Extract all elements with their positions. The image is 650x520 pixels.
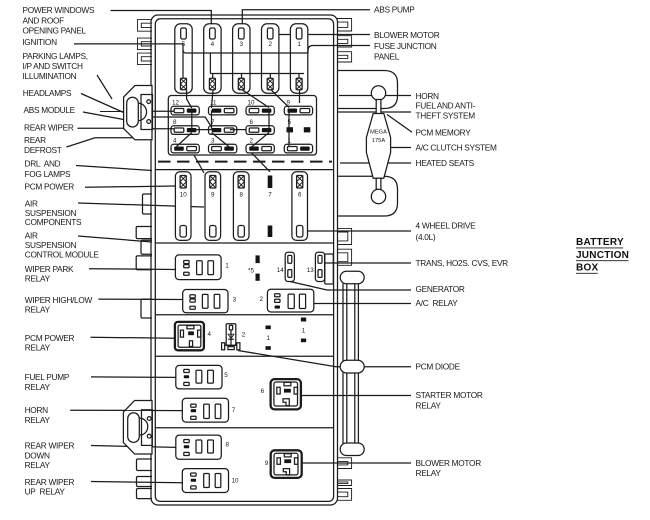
- right connector rect beside fuse 13: [325, 254, 334, 284]
- right edge tab RT4: [337, 228, 352, 244]
- fuse 14: [285, 252, 294, 281]
- wire: parking lamps label to connector: [97, 75, 112, 99]
- svg-text:BATTERY: BATTERY: [576, 237, 624, 248]
- svg-text:REAR WIPER: REAR WIPER: [25, 441, 75, 451]
- right edge tab RT6: [337, 458, 352, 469]
- svg-text:10: 10: [180, 192, 188, 199]
- wire: rear wiper up relay label to relay 10: [91, 482, 182, 483]
- svg-text:FUEL PUMP: FUEL PUMP: [25, 372, 70, 382]
- svg-text:PARKING LAMPS,: PARKING LAMPS,: [23, 51, 88, 61]
- wire: abs module leader over connector: [100, 111, 124, 113]
- wire: mini fuse 11 to 7: [211, 111, 213, 130]
- cartridge fuse 10: [175, 172, 191, 241]
- right tab for MEGA fuse bottom: [337, 176, 398, 216]
- svg-text:2: 2: [268, 41, 272, 48]
- mini fuse 3: [209, 144, 237, 153]
- svg-text:5: 5: [224, 372, 228, 379]
- mega fuse top circle terminal: [371, 86, 385, 100]
- wire: abs pump label to fuse 3: [242, 10, 370, 28]
- svg-text:RELAY: RELAY: [25, 274, 51, 284]
- svg-text:RELAY: RELAY: [25, 304, 51, 314]
- right edge tab RT5: [337, 249, 352, 265]
- svg-text:FUEL AND ANTI-: FUEL AND ANTI-: [416, 101, 476, 111]
- svg-text:4: 4: [211, 41, 215, 48]
- svg-text:10: 10: [248, 99, 256, 106]
- wire: fuse 3 x-box to mini fuse 10: [242, 90, 269, 108]
- wire: rear defrost label to connector: [67, 138, 135, 147]
- svg-text:WIPER HIGH/LOW: WIPER HIGH/LOW: [25, 295, 93, 305]
- svg-text:1: 1: [267, 335, 271, 342]
- wire: air suspension components label to fuse 9: [78, 203, 204, 207]
- wire: mini fuse 12 to 8: [191, 111, 193, 130]
- wire: box edge to mini fuse 7: [152, 117, 212, 127]
- solid line below dashed separator: [155, 169, 333, 171]
- wire: fuse 5 center drop: [175, 44, 183, 78]
- wire: horn relay leader over connector: [123, 410, 182, 412]
- wire: blower motor label to fuse 2: [273, 34, 370, 36]
- maxi fuse 1: [290, 24, 307, 93]
- svg-text:9: 9: [211, 192, 215, 199]
- relay 3 wiper high/low: [183, 290, 228, 313]
- svg-text:FUSE JUNCTION: FUSE JUNCTION: [374, 41, 437, 51]
- svg-text:2: 2: [260, 296, 264, 303]
- svg-text:DEFROST: DEFROST: [24, 145, 62, 155]
- mini fuse 7: [209, 126, 237, 135]
- svg-text:4 WHEEL DRIVE: 4 WHEEL DRIVE: [416, 221, 477, 231]
- svg-text:REAR: REAR: [24, 135, 46, 145]
- divider line below cartridge-fuse area: [155, 242, 333, 244]
- svg-text:14: 14: [277, 267, 285, 274]
- wire: mini fuse 2 to position 7: [252, 153, 271, 172]
- svg-text:AIR: AIR: [25, 198, 38, 208]
- left edge tab T7: [136, 256, 152, 270]
- svg-text:TRANS, HO2S. CVS, EVR: TRANS, HO2S. CVS, EVR: [416, 258, 509, 268]
- svg-text:FOG LAMPS: FOG LAMPS: [25, 169, 71, 179]
- wire: fuel and anti-theft label to box: [338, 111, 412, 113]
- left edge tab T8: [141, 299, 152, 318]
- left edge tab T10: [137, 477, 153, 487]
- right edge tab RT2: [337, 36, 352, 47]
- relay 2 a/c relay: [267, 289, 313, 312]
- mega fuse top stem: [376, 100, 381, 115]
- wire: box edge into mini fuse 8: [149, 128, 175, 130]
- divider line below relay row 1: [155, 314, 333, 316]
- mini fuse 12: [171, 106, 199, 115]
- wire: rear wiper label to connector: [78, 127, 125, 129]
- svg-text:BOX: BOX: [576, 263, 599, 274]
- svg-text:1: 1: [225, 263, 229, 270]
- wire: wiper park relay label to relay 1: [89, 268, 175, 271]
- left edge tab T4: [143, 194, 153, 214]
- wire: pcm power label to fuse 10: [85, 186, 176, 187]
- left connector upper (headlamps): [124, 86, 152, 140]
- wire: power windows label to fuse 4: [111, 11, 212, 28]
- wire: air suspension control module label to box edge: [78, 236, 152, 242]
- cartridge fuse 6: [292, 172, 308, 241]
- wire: bus drop at fuse 4: [209, 53, 211, 74]
- fuse 13: [315, 252, 324, 281]
- svg-text:*5: *5: [248, 268, 254, 275]
- wire: fuse junction panel label to fuse 1: [308, 46, 370, 54]
- svg-text:POWER WINDOWS: POWER WINDOWS: [23, 5, 95, 15]
- bolt rail shafts: [343, 284, 358, 362]
- wire: drops to x-boxes: [213, 74, 299, 79]
- svg-text:HEATED SEATS: HEATED SEATS: [416, 158, 475, 168]
- relay 8 rear wiper down: [176, 435, 222, 459]
- svg-text:RELAY: RELAY: [25, 460, 51, 470]
- mega fuse bottom circle terminal: [371, 189, 385, 203]
- svg-text:SUSPENSION: SUSPENSION: [25, 240, 77, 250]
- wire: rear wiper down relay label to relay 8: [91, 446, 176, 448]
- bolt rail cap bottom: [340, 443, 364, 456]
- mini fuse 4: [171, 144, 199, 153]
- svg-text:4: 4: [173, 137, 177, 144]
- svg-text:1: 1: [302, 328, 306, 335]
- wire: ignition label to fuse 5: [74, 43, 175, 45]
- left edge tab T5: [136, 227, 152, 239]
- svg-text:THEFT SYSTEM: THEFT SYSTEM: [416, 111, 476, 121]
- cartridge fuse 8: [233, 172, 249, 241]
- svg-text:RELAY: RELAY: [25, 342, 51, 352]
- svg-text:PANEL: PANEL: [374, 51, 400, 61]
- relay 5 fuel pump: [176, 365, 222, 389]
- svg-text:6: 6: [298, 192, 302, 199]
- wire: mini fuse 10 to 6: [268, 111, 270, 130]
- wire: fuse 5 x-box to mini fuse 12: [187, 90, 192, 108]
- svg-text:175A: 175A: [372, 138, 385, 144]
- svg-text:1: 1: [297, 41, 301, 48]
- mini fuse 10: [246, 106, 274, 115]
- wire: horn label to box: [339, 95, 411, 97]
- svg-text:IGNITION: IGNITION: [22, 37, 57, 47]
- right tab for MEGA fuse top: [337, 71, 398, 109]
- wire: heated seats label across mega fuse: [340, 162, 411, 164]
- svg-text:GENERATOR: GENERATOR: [416, 284, 465, 294]
- wire: headlamps label to connector: [81, 94, 124, 113]
- mini fuse 11: [209, 106, 237, 115]
- maxi fuse 4: [204, 24, 221, 93]
- maxi fuse 5: [175, 24, 192, 93]
- left connector lower (horn relay): [123, 401, 152, 455]
- maxi fuse 3: [233, 24, 250, 93]
- wire: fuse 2 x-box to mini fuse 9: [271, 90, 289, 108]
- mega fuse body MEGA 175A: [366, 114, 390, 179]
- svg-text:A/C CLUTCH SYSTEM: A/C CLUTCH SYSTEM: [416, 142, 497, 152]
- mini fuse 8: [171, 126, 199, 135]
- maxi fuse 2: [262, 24, 279, 93]
- svg-text:PCM POWER: PCM POWER: [25, 182, 75, 192]
- wire: 4 wheel drive label to fuse 6: [307, 230, 411, 232]
- wire: mini fuse 8 to 4: [177, 133, 192, 147]
- wire: box edge into mini fuse 12: [149, 110, 175, 112]
- wire: wiper high/low relay label to relay 3: [98, 298, 182, 300]
- left edge tab T11: [137, 489, 153, 499]
- wire: drl and fog lamps label to box edge: [76, 166, 152, 171]
- svg-text:REAR WIPER: REAR WIPER: [25, 477, 75, 487]
- svg-text:RELAY: RELAY: [416, 400, 442, 410]
- wire: a/c relay label to relay 2: [314, 303, 411, 305]
- svg-text:7: 7: [232, 407, 236, 414]
- mini fuse 9: [284, 106, 312, 115]
- mini fuse 1: [284, 144, 312, 153]
- wire: pcm diode label to diode: [238, 351, 411, 367]
- svg-text:6: 6: [250, 119, 254, 126]
- svg-text:HORN: HORN: [25, 405, 49, 415]
- terminal ticks column B: [301, 318, 306, 322]
- svg-text:8: 8: [239, 192, 243, 199]
- mini fuse grid box: [168, 96, 316, 156]
- wire: pcm power relay label to relay 4: [91, 337, 175, 338]
- mega fuse bottom stem: [376, 178, 381, 190]
- dashed separator line: [158, 161, 332, 163]
- svg-text:AND ROOF: AND ROOF: [23, 15, 65, 25]
- svg-text:ILLUMINATION: ILLUMINATION: [23, 71, 77, 81]
- wire: blower motor relay label to relay 9: [302, 462, 411, 464]
- svg-text:DRL AND: DRL AND: [25, 158, 61, 168]
- svg-text:A/C RELAY: A/C RELAY: [416, 298, 459, 308]
- relay 4 pcm power: [175, 322, 204, 350]
- svg-text:10: 10: [232, 478, 240, 485]
- svg-text:8: 8: [173, 119, 177, 126]
- mini fuse 2: [246, 144, 274, 153]
- svg-text:ABS PUMP: ABS PUMP: [374, 4, 415, 14]
- left edge tab T9: [137, 459, 153, 471]
- svg-text:I/P AND SWITCH: I/P AND SWITCH: [23, 61, 83, 71]
- terminal ticks column A: [266, 326, 271, 330]
- svg-text:OPENING PANEL: OPENING PANEL: [23, 25, 87, 35]
- wire: a/c clutch system label to mega fuse: [391, 147, 412, 149]
- svg-text:PCM MEMORY: PCM MEMORY: [416, 128, 472, 138]
- svg-text:PCM POWER: PCM POWER: [25, 333, 75, 343]
- wire: starter motor relay label to relay 6: [301, 395, 412, 397]
- svg-text:BLOWER MOTOR: BLOWER MOTOR: [374, 30, 440, 40]
- wire: fuel pump relay label to relay 5: [91, 376, 176, 379]
- relay 7 horn: [182, 398, 228, 422]
- wire: mini fuse 9 to position 5: [288, 111, 290, 128]
- svg-text:8: 8: [226, 442, 230, 449]
- bolt rail cap middle: [340, 360, 364, 373]
- wire: mini fuse 4 to fuse 9: [194, 155, 204, 173]
- cartridge fuse 9: [205, 172, 221, 241]
- svg-text:4: 4: [208, 331, 212, 338]
- svg-text:7: 7: [268, 192, 272, 199]
- battery junction box outer wall: [151, 15, 338, 505]
- svg-text:ABS MODULE: ABS MODULE: [24, 105, 76, 115]
- svg-text:3: 3: [233, 297, 237, 304]
- wire: generator label to fuse 14: [290, 282, 411, 291]
- wire: mini fuse 6 to 2: [252, 133, 270, 148]
- left edge tab T3: [138, 53, 153, 65]
- wire: abs module label to connector: [83, 112, 124, 120]
- svg-text:3: 3: [211, 137, 215, 144]
- svg-text:3: 3: [240, 41, 244, 48]
- svg-text:JUNCTION: JUNCTION: [576, 250, 629, 261]
- battery junction box inner wall: [155, 19, 333, 502]
- svg-text:REAR WIPER: REAR WIPER: [24, 122, 74, 132]
- fuse position 5 (empty) terminals: [287, 127, 294, 132]
- svg-text:RELAY: RELAY: [25, 382, 51, 392]
- svg-text:STARTER MOTOR: STARTER MOTOR: [416, 390, 483, 400]
- divider line below horn relay row: [155, 427, 333, 429]
- svg-text:RELAY: RELAY: [25, 415, 51, 425]
- wire: mini fuse 7 to 6 row link: [230, 129, 246, 131]
- wire: bus above x-boxes: [210, 73, 304, 75]
- mini fuse 6: [246, 126, 274, 135]
- left edge tab T6: [141, 240, 152, 254]
- svg-text:2: 2: [242, 332, 246, 339]
- wire: bus from fuse 5 across tops: [183, 50, 308, 53]
- svg-text:PCM DIODE: PCM DIODE: [416, 362, 461, 372]
- right edge tab RT1: [337, 19, 352, 32]
- relay 1 wiper park: [175, 255, 221, 280]
- svg-text:DOWN: DOWN: [25, 450, 50, 460]
- svg-text:MEGA: MEGA: [370, 130, 387, 136]
- fuse position 7 (empty) terminals: [268, 176, 273, 189]
- right edge tab RT3: [337, 52, 352, 62]
- svg-text:13: 13: [307, 267, 315, 274]
- fuse position 5 terminals (relay row): [256, 255, 260, 263]
- pcm diode: [222, 324, 240, 350]
- wire: fuse 1 x-box drop: [299, 90, 301, 103]
- wire: fuse 4 x-box to mini fuse 11: [212, 90, 214, 108]
- wire: pcm memory label from mega fuse: [387, 115, 412, 133]
- left edge tab T2: [138, 38, 153, 50]
- svg-text:RELAY: RELAY: [416, 468, 442, 478]
- relay 10 rear wiper up: [182, 469, 228, 493]
- svg-text:12: 12: [172, 99, 180, 106]
- svg-text:UP RELAY: UP RELAY: [25, 487, 66, 497]
- right edge tab RT7: [337, 480, 352, 486]
- left edge tab T1: [138, 20, 153, 32]
- divider line below PCM relay row: [155, 355, 333, 357]
- svg-text:9: 9: [265, 460, 269, 467]
- wire: horn relay label to relay 7: [70, 409, 182, 411]
- wire: trans ho2s label to fuse 13: [325, 262, 411, 264]
- svg-text:6: 6: [261, 388, 265, 395]
- svg-text:2: 2: [250, 137, 254, 144]
- bolt rail cap top: [340, 271, 364, 283]
- wire: mini fuse 8 to 7 row link: [192, 129, 212, 131]
- svg-text:WIPER PARK: WIPER PARK: [25, 264, 74, 274]
- svg-text:COMPONENTS: COMPONENTS: [25, 217, 82, 227]
- svg-text:BLOWER MOTOR: BLOWER MOTOR: [416, 458, 482, 468]
- right edge tab RT8: [337, 489, 352, 501]
- svg-text:CONTROL MODULE: CONTROL MODULE: [25, 250, 100, 260]
- wire: mini fuse 7 to 3: [212, 133, 231, 148]
- svg-text:11: 11: [210, 99, 217, 106]
- svg-text:(4.0L): (4.0L): [416, 232, 436, 242]
- svg-text:HEADLAMPS: HEADLAMPS: [23, 88, 72, 98]
- relay 6 starter motor: [271, 379, 301, 409]
- svg-text:HORN: HORN: [416, 91, 440, 101]
- relay 9 blower motor: [271, 450, 302, 478]
- wire: position 5 to mini fuse 1: [288, 132, 290, 147]
